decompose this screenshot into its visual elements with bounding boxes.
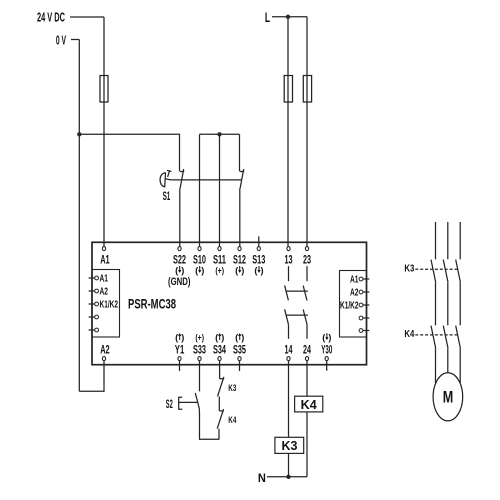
wire 0V rail to S1 xyxy=(79,134,179,171)
wire S34 down xyxy=(219,361,221,379)
svg-text:Y30: Y30 xyxy=(321,345,332,357)
wire L to 13 xyxy=(287,17,289,247)
node N junction xyxy=(286,475,290,479)
wire 24VDC horizontal xyxy=(70,16,104,18)
svg-text:(GND): (GND) xyxy=(168,276,191,288)
svg-text:(+): (+) xyxy=(215,265,224,275)
terminal A2 xyxy=(100,345,110,361)
svg-text:K1/K2: K1/K2 xyxy=(340,301,359,312)
svg-text:): ) xyxy=(181,332,184,342)
pushbutton S2 actuator xyxy=(179,397,198,409)
terminal S12 xyxy=(233,247,246,276)
wire 24VDC vertical to A1 xyxy=(103,17,105,247)
contact K4 main pole 3 xyxy=(456,326,461,383)
wire L horizontal xyxy=(272,16,307,18)
wire to S10 xyxy=(199,134,201,246)
contact K3 aux (NC) xyxy=(218,377,225,411)
svg-text:14: 14 xyxy=(285,345,293,357)
svg-text:24 V DC: 24 V DC xyxy=(37,9,65,24)
svg-text:): ) xyxy=(221,332,224,342)
svg-text:Y1: Y1 xyxy=(175,345,185,357)
svg-text:): ) xyxy=(328,332,331,342)
contact K4 main pole 2 xyxy=(443,326,448,373)
terminal S11 xyxy=(213,247,226,276)
svg-text:13: 13 xyxy=(285,254,293,266)
svg-text:A1: A1 xyxy=(100,254,110,266)
svg-text:K3: K3 xyxy=(404,262,414,274)
wire S10-S11-S12 bridge xyxy=(200,133,240,135)
svg-text:A1: A1 xyxy=(350,275,359,286)
fuse F1 xyxy=(100,76,108,103)
node S11 junction xyxy=(217,132,221,136)
svg-text:S35: S35 xyxy=(233,345,246,357)
terminal S33 xyxy=(193,332,206,360)
svg-text:K3: K3 xyxy=(228,383,236,394)
motor M xyxy=(433,373,463,421)
svg-text:23: 23 xyxy=(303,254,311,266)
svg-text:L: L xyxy=(265,10,270,26)
svg-text:A1: A1 xyxy=(100,274,109,285)
contact K3 main pole 3 xyxy=(456,260,461,326)
relay contact 13-14 xyxy=(285,266,289,339)
contact K4 aux (NC) xyxy=(217,409,224,439)
svg-text:K3: K3 xyxy=(282,439,298,453)
svg-text:S1: S1 xyxy=(163,189,171,203)
terminal 24 xyxy=(303,345,311,361)
node 0V junction xyxy=(77,132,81,136)
wire phase L3 xyxy=(459,222,461,259)
svg-text:PSR-MC38: PSR-MC38 xyxy=(128,296,176,312)
contact link bar lower xyxy=(286,314,308,316)
wire Y30 stub xyxy=(326,361,328,371)
contact link bar upper xyxy=(286,290,308,292)
terminal S13 xyxy=(252,247,265,276)
relay contact 23-24 xyxy=(303,266,307,339)
terminal Y1 xyxy=(175,332,185,360)
svg-text:): ) xyxy=(201,265,204,275)
svg-text:): ) xyxy=(241,265,244,275)
terminal S22 xyxy=(168,247,191,288)
coil K4 xyxy=(295,396,323,412)
svg-text:S2: S2 xyxy=(166,397,173,411)
fuse F3 xyxy=(303,76,311,103)
coil K3 xyxy=(275,437,304,453)
wire L to 23 xyxy=(306,17,308,247)
svg-text:A2: A2 xyxy=(100,345,110,357)
terminal Y30 xyxy=(321,332,332,360)
contact K4 main pole 1 xyxy=(431,326,436,383)
wire S33 down xyxy=(199,361,201,392)
terminal S35 xyxy=(233,332,246,360)
fuse F2 xyxy=(284,76,292,103)
wire 0V vertical rail xyxy=(78,40,80,392)
svg-text:): ) xyxy=(241,332,244,342)
svg-text:M: M xyxy=(443,388,454,406)
svg-text:K4: K4 xyxy=(228,415,236,426)
svg-text:24: 24 xyxy=(303,345,311,357)
svg-text:K1/K2: K1/K2 xyxy=(100,300,119,311)
svg-text:(+): (+) xyxy=(195,332,204,342)
relay block PSR-MC38 outline xyxy=(92,242,367,364)
terminal 14 xyxy=(285,345,293,361)
wire 0V horizontal xyxy=(71,39,79,41)
wire 0V to A2 xyxy=(79,361,104,392)
terminal 23 xyxy=(303,247,311,267)
svg-text:): ) xyxy=(181,265,184,275)
wire S13 stub xyxy=(258,236,260,246)
wire to S11 xyxy=(219,134,221,246)
terminal 13 xyxy=(285,247,293,267)
wire K3 to N xyxy=(288,453,290,476)
svg-text:N: N xyxy=(258,472,266,485)
K3 actuator dashed xyxy=(415,268,458,270)
svg-text:A2: A2 xyxy=(350,288,359,299)
svg-text:A2: A2 xyxy=(100,287,109,298)
contact K3 main pole 1 xyxy=(431,260,436,326)
wire 24 down xyxy=(306,361,308,397)
contact K3 main pole 2 xyxy=(443,260,448,326)
contact S2 (NO) blade and wire to bottom bar xyxy=(195,393,219,439)
svg-text:S33: S33 xyxy=(193,345,206,357)
svg-text:0 V: 0 V xyxy=(56,34,66,48)
coil symbol box right xyxy=(340,271,370,338)
wire S1 actuator link xyxy=(171,179,242,181)
svg-text:K4: K4 xyxy=(404,328,414,340)
svg-text:S34: S34 xyxy=(213,345,226,357)
svg-text:): ) xyxy=(261,265,264,275)
emergency stop button S1 xyxy=(160,170,171,186)
wire N xyxy=(267,476,307,478)
terminal A1 xyxy=(100,247,110,267)
wire Y1 stub xyxy=(179,361,181,371)
svg-text:K4: K4 xyxy=(301,398,317,412)
node L junction xyxy=(286,15,290,19)
wire phase L2 xyxy=(447,222,449,259)
terminal S34 xyxy=(213,332,226,360)
wire to S1 pole 2 xyxy=(239,134,241,171)
wire S35 stub xyxy=(239,361,241,371)
wire phase L1 xyxy=(435,222,437,259)
contact S1 pole 1 (NC) xyxy=(180,169,184,247)
terminal S10 xyxy=(193,247,206,276)
K4 actuator dashed xyxy=(415,334,458,336)
contact S1 pole 2 (NC) xyxy=(240,169,244,247)
wire 14 down xyxy=(288,361,290,438)
wire K4 to N xyxy=(306,412,308,477)
coil symbol box left xyxy=(89,270,120,338)
